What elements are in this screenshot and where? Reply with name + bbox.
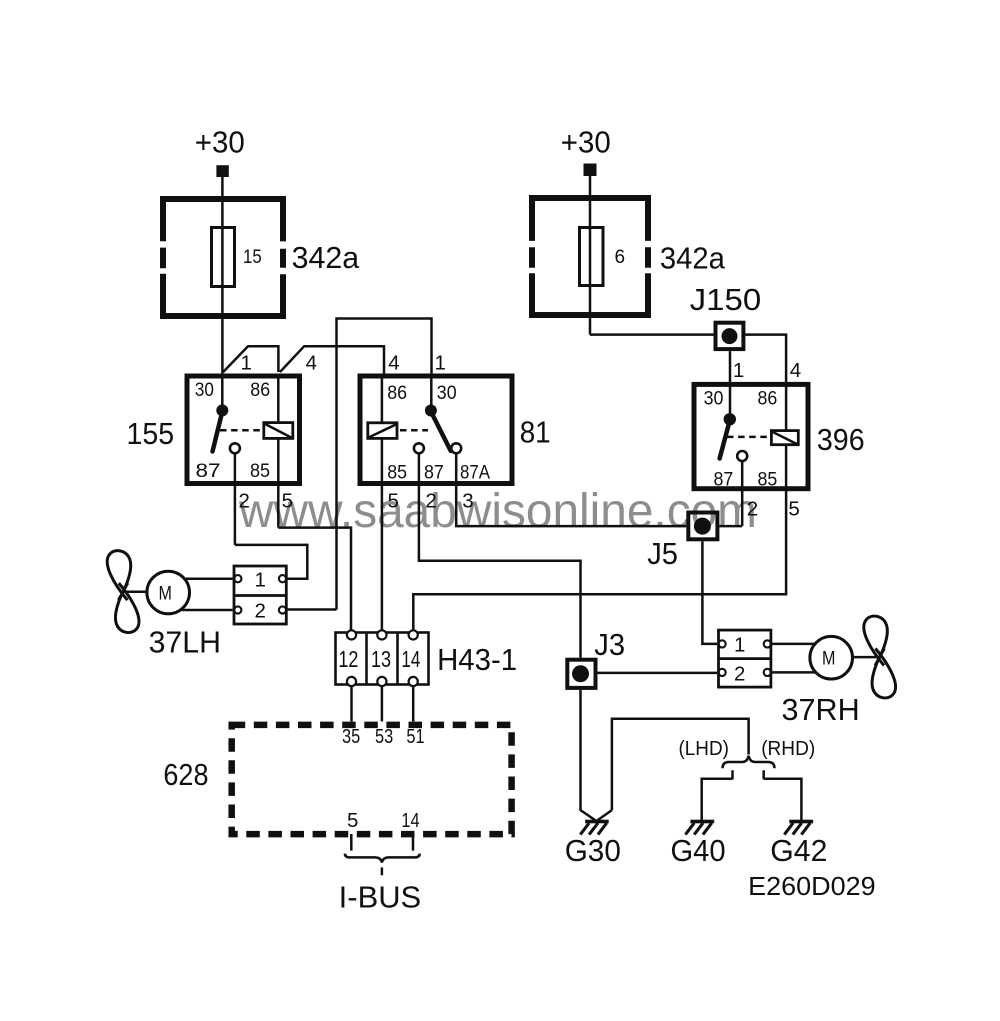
svg-text:2: 2 xyxy=(747,498,758,521)
svg-text:1: 1 xyxy=(241,351,252,374)
svg-text:+30: +30 xyxy=(561,126,611,160)
svg-text:www.saabwisonline.com: www.saabwisonline.com xyxy=(238,485,757,538)
svg-text:13: 13 xyxy=(371,646,391,672)
svg-text:85: 85 xyxy=(387,463,407,484)
svg-text:155: 155 xyxy=(127,417,175,451)
svg-text:1: 1 xyxy=(255,569,266,592)
svg-text:30: 30 xyxy=(437,383,457,404)
svg-text:87: 87 xyxy=(424,463,444,484)
svg-text:86: 86 xyxy=(758,389,778,410)
svg-text:5: 5 xyxy=(788,498,799,521)
svg-text:5: 5 xyxy=(282,490,293,513)
svg-text:342a: 342a xyxy=(292,241,360,275)
svg-text:G40: G40 xyxy=(671,834,726,868)
svg-text:85: 85 xyxy=(758,470,778,491)
svg-text:86: 86 xyxy=(387,383,407,404)
svg-text:37LH: 37LH xyxy=(149,626,221,660)
svg-text:86: 86 xyxy=(250,380,270,401)
svg-text:3: 3 xyxy=(462,490,473,513)
svg-text:51: 51 xyxy=(406,725,424,748)
svg-text:85: 85 xyxy=(250,461,270,482)
svg-text:5: 5 xyxy=(388,490,399,513)
svg-text:14: 14 xyxy=(401,646,420,672)
svg-text:87A: 87A xyxy=(460,463,490,484)
svg-text:5: 5 xyxy=(347,809,358,832)
svg-text:87: 87 xyxy=(714,470,734,491)
svg-text:2: 2 xyxy=(425,490,436,513)
svg-text:2: 2 xyxy=(255,600,266,623)
svg-text:15: 15 xyxy=(243,247,262,268)
svg-text:12: 12 xyxy=(338,646,358,672)
svg-text:(LHD): (LHD) xyxy=(679,737,729,760)
svg-text:M: M xyxy=(822,649,835,670)
svg-text:30: 30 xyxy=(704,389,724,410)
svg-text:I-BUS: I-BUS xyxy=(339,881,422,915)
svg-text:6: 6 xyxy=(615,247,626,268)
svg-text:H43-1: H43-1 xyxy=(437,643,517,677)
svg-text:81: 81 xyxy=(520,416,551,450)
svg-text:396: 396 xyxy=(817,423,865,457)
svg-text:1: 1 xyxy=(733,359,744,382)
svg-text:35: 35 xyxy=(342,725,360,748)
svg-text:87: 87 xyxy=(196,461,221,482)
svg-text:G30: G30 xyxy=(565,834,621,868)
svg-text:+30: +30 xyxy=(195,126,245,160)
svg-text:(RHD): (RHD) xyxy=(761,737,815,760)
svg-text:G42: G42 xyxy=(770,834,827,868)
svg-text:1: 1 xyxy=(435,351,446,374)
svg-text:M: M xyxy=(159,584,172,605)
svg-text:2: 2 xyxy=(239,490,250,513)
svg-text:J3: J3 xyxy=(594,628,625,662)
svg-text:342a: 342a xyxy=(660,242,725,276)
svg-text:14: 14 xyxy=(401,809,419,832)
svg-text:53: 53 xyxy=(375,725,393,748)
svg-text:37RH: 37RH xyxy=(782,693,860,727)
svg-text:4: 4 xyxy=(388,351,399,374)
svg-text:4: 4 xyxy=(306,351,317,374)
svg-text:4: 4 xyxy=(790,359,801,382)
svg-text:E260D029: E260D029 xyxy=(748,871,876,901)
svg-text:30: 30 xyxy=(195,380,214,401)
svg-text:2: 2 xyxy=(734,663,745,686)
svg-text:1: 1 xyxy=(734,634,745,657)
svg-text:J150: J150 xyxy=(690,283,762,317)
svg-text:J5: J5 xyxy=(647,537,678,571)
svg-text:628: 628 xyxy=(163,758,208,792)
